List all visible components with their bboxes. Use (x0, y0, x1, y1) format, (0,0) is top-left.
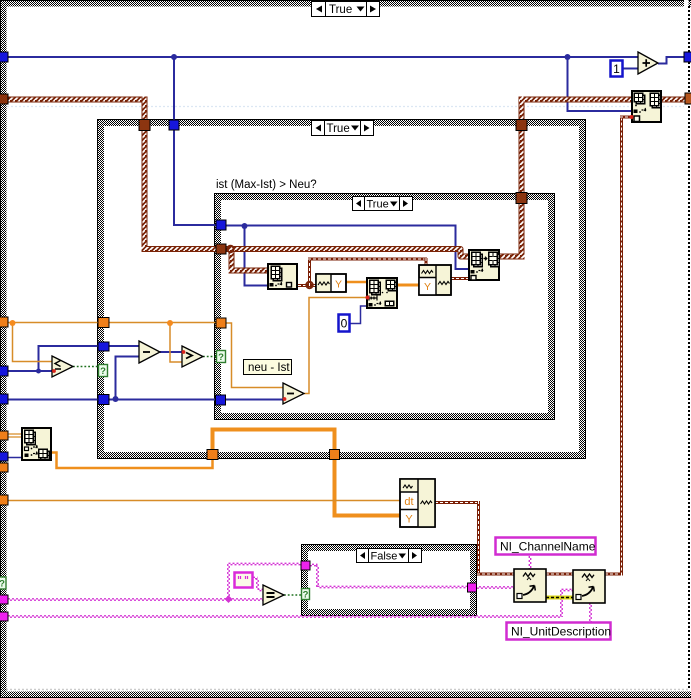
tunnel: waveform inner-left (216, 244, 226, 254)
wire: 2D array orange pair to bottom-left index node (4, 434, 21, 437)
wire: waveform-array rail to insert node (221, 249, 468, 257)
wire: inner blue rail to insert index input (221, 226, 468, 270)
node: set waveform attribute 1 (514, 569, 546, 602)
node: get waveform Y component (316, 274, 346, 292)
node: index array 2D (bottom left) (21, 427, 52, 461)
window edge dashed line (bottom, faint) (6, 689, 688, 691)
node: build waveform Y (inner) (419, 265, 451, 295)
wire: main blue top rail (4, 56, 638, 58)
node: case selector ? outer (0, 577, 6, 590)
tunnel: waveform middle-top right (516, 120, 527, 131)
node: replace array subset (366, 277, 398, 309)
wire: add output to right tunnel (658, 57, 687, 64)
tunnel: blue outer-left top (0, 52, 8, 62)
node: add function (top right) (638, 52, 658, 74)
wire: middle tunnel to subtract top input (104, 345, 139, 347)
svg-text:neu - Ist: neu - Ist (248, 362, 290, 374)
wire: waveform build-out to insert (451, 277, 468, 280)
wire: waveform from dt-build out (435, 501, 480, 504)
constant: empty string (235, 573, 253, 588)
node: subtract (middle struct) (139, 341, 160, 363)
tunnel: orange middle-bottom A (207, 450, 218, 460)
wire: equals to False selector terminal (284, 594, 301, 596)
wire: empty string jog down (256, 578, 258, 590)
wire: inner subtract out up to replace node (304, 298, 366, 394)
tunnel: waveform inner-top (516, 193, 527, 204)
tunnel: blue middle-left low (98, 395, 109, 405)
wire: insert node out (500, 254, 525, 260)
faint dashed guide line upper (7, 106, 684, 108)
tunnel: blue outer-left low (0, 452, 8, 461)
wire: insert-2 out to right tunnel (662, 97, 691, 103)
label: neu - Ist (244, 360, 292, 375)
wire: NI_ChannelName down to node (528, 556, 530, 569)
svg-text:?: ? (218, 352, 224, 363)
tunnel: blue outer-left mid1 (0, 366, 8, 376)
wire: branch up to middle-struct blue tunnel (39, 346, 103, 371)
tunnel: waveform-array outer-left (0, 94, 8, 104)
wire: variant segment between attr nodes (546, 596, 573, 600)
wire: rail 2 up into attr node 2 (562, 588, 574, 590)
bottom case structure (False) border (302, 545, 477, 616)
node: case selector ? inner (217, 351, 226, 364)
tunnel: magenta False-right (468, 583, 477, 592)
tunnel: blue outer-right (add result) (684, 52, 691, 62)
junction: blue lower rail (113, 396, 119, 402)
wire: blue branch down into middle+inner structure (174, 57, 221, 225)
wire: attr node 2 to NI_UnitDescription (589, 603, 591, 622)
wire: waveform-array riser into middle struct (142, 97, 148, 250)
wire: waveform-array riser to top (519, 97, 525, 259)
wire: branch down to index-array node (245, 226, 268, 286)
wire: inside False to right tunnel (318, 585, 469, 587)
wire: waveform drop to attr row (477, 501, 480, 574)
wire: index node output loop to bottom tunnel A (52, 453, 213, 469)
wire: string rail 1 to equals (4, 598, 263, 600)
tunnel: orange middle-left (98, 318, 109, 328)
red coercion dots (366, 296, 370, 300)
svg-text:True: True (329, 4, 352, 16)
wire: waveform drop into build node (425, 258, 428, 265)
wire: empty string out (253, 576, 258, 578)
middle case structure (True) border (98, 120, 586, 459)
svg-text:?: ? (0, 579, 5, 590)
svg-text:Y: Y (424, 281, 431, 293)
svg-text:NI_UnitDescription: NI_UnitDescription (511, 625, 611, 639)
wire: tunnel B down to build dt/Y node Y input (335, 457, 401, 516)
svg-text:Y: Y (335, 279, 342, 291)
tunnel: orange inner-left (216, 318, 226, 328)
junction: waveform ring B (306, 282, 312, 288)
wire: outer blue to less-equal lower input (4, 370, 52, 372)
svg-text:True: True (367, 199, 389, 211)
wire: waveform-array rail to inner tunnel (142, 246, 222, 252)
node: subtract (inner, neu - Ist) (283, 383, 304, 404)
wire: rail 2 riser (560, 590, 562, 617)
wire: long blue rail to inner subtract (4, 399, 284, 401)
tunnel: blue inner-left top (216, 220, 226, 230)
tunnel: blue inner-left low (216, 395, 226, 405)
wire: branch down to less-equal top input (13, 323, 53, 362)
svg-text:1: 1 (613, 62, 620, 76)
wire: waveform-array branch into index node (229, 268, 268, 274)
wire: constant 0 to replace node (350, 306, 366, 324)
selector label: middle True (312, 121, 374, 136)
junction: orange middle rail (167, 320, 173, 326)
wire: waveform attr2 out (605, 573, 623, 576)
svg-text:?: ? (100, 366, 106, 377)
tunnel: blue outer-left mid2 (0, 394, 8, 404)
wire: constant 1 to add (622, 68, 638, 70)
wire: waveform riser from junction (308, 259, 311, 286)
wire: branch up to subtract lower input (116, 357, 140, 400)
svg-text:False: False (371, 551, 398, 563)
node: insert into array (top right) (631, 90, 662, 123)
tunnel: orange outer-left (0, 317, 8, 327)
node: equals comparator (263, 585, 284, 605)
selector label: False (357, 549, 422, 563)
tunnel: blue middle-top (169, 120, 179, 130)
constant 1 (611, 61, 623, 77)
wire: waveform index-out to get-Y (298, 284, 316, 287)
wire: waveform-array branch down to index node (229, 252, 235, 271)
inner case structure (ist (Max-Ist) > Neu?) border (215, 194, 555, 420)
wire: inside False from tunnel (308, 563, 318, 565)
wire: empty string to equals input (258, 588, 264, 590)
node: insert into array (inner) (468, 249, 500, 281)
wire: branch down to greater lower input (170, 323, 182, 362)
junction: orange outer rail (10, 320, 16, 326)
wire: waveform-array rail from left tunnel (2, 97, 142, 103)
junction: waveform ring A (227, 246, 233, 252)
wire: inside False down (316, 565, 318, 587)
svg-text:0: 0 (341, 317, 348, 331)
tunnel: magenta False-left (301, 561, 310, 570)
wire: inside loop tunnel A to tunnel B (213, 430, 335, 453)
svg-text:True: True (327, 123, 350, 135)
wire: replace output to build-waveform Y (398, 284, 419, 287)
tunnel: magenta outer-left 1 (0, 595, 8, 604)
wire: long dt rail (4, 500, 400, 502)
node: case selector ? middle (99, 365, 108, 378)
svg-text:NI_ChannelName: NI_ChannelName (500, 540, 596, 554)
wire: string rail 2 (4, 615, 562, 617)
node: index array (inner struct) (267, 263, 298, 290)
tunnel: waveform outer-right (685, 93, 691, 104)
junction: blue inner rail (242, 223, 248, 229)
node: greater comparator (182, 346, 203, 367)
wire: blue to bottom-left index node (4, 457, 21, 459)
wire: waveform into insert-2 (620, 116, 631, 119)
junction: pink diamond (225, 595, 233, 603)
label: NI_ChannelName (496, 538, 596, 555)
wire: blue branch down to top-right insert node (568, 57, 632, 111)
window edge dashed line (right) (688, 6, 690, 688)
junction: blue outer rail (36, 369, 41, 374)
node: build waveform dt/Y (bottom) (400, 479, 435, 527)
node: set waveform attribute 2 (573, 570, 605, 603)
wire: waveform riser to insert-2 (620, 117, 623, 576)
label: NI_UnitDescription (507, 623, 612, 640)
node: case selector ? False struct (302, 589, 310, 601)
wire: waveform attr1 to attr2 (546, 573, 573, 576)
selector label: inner True (353, 197, 413, 211)
wire: False-right tunnel to attr node 1 (475, 586, 514, 588)
tunnel: magenta outer-left 2 (0, 612, 8, 621)
tunnel: orange outer-left 2Darray (0, 431, 8, 440)
wire: waveform row to build node (308, 258, 427, 261)
tunnel: waveform middle-top left (139, 120, 150, 131)
tunnel: orange outer-left dt (0, 495, 8, 505)
wire: waveform-array top rail to insert-2 (519, 97, 631, 103)
selector label: outer True (312, 2, 380, 17)
tunnel: blue middle-left up (98, 342, 109, 351)
tunnel: orange outer-left unwired (0, 463, 8, 472)
wire: get-Y output to replace (346, 281, 366, 284)
node: less-equal comparator (52, 356, 73, 377)
svg-text:?: ? (303, 590, 309, 601)
tunnel: orange middle-bottom B (330, 450, 340, 460)
junction: blue top rail A (171, 54, 177, 60)
wire: greater to inner selector terminal (203, 356, 216, 358)
svg-text:dt: dt (404, 496, 413, 508)
wire: branch over to False-left tunnel (229, 562, 302, 564)
wire: subtract out to greater input (160, 351, 182, 353)
junction: blue top rail B (565, 54, 571, 60)
wire: less-equal to middle selector terminal (73, 366, 98, 368)
wire: inner orange to subtract top input (221, 323, 283, 388)
constant 0 (339, 315, 350, 332)
wire: waveform into attr node 1 (477, 573, 514, 576)
svg-text:ist (Max-Ist) > Neu?: ist (Max-Ist) > Neu? (216, 179, 317, 191)
svg-text:Y: Y (405, 514, 413, 526)
wire: orange rail into structures (4, 322, 221, 324)
wire: branch up from rail 1 (227, 564, 229, 599)
